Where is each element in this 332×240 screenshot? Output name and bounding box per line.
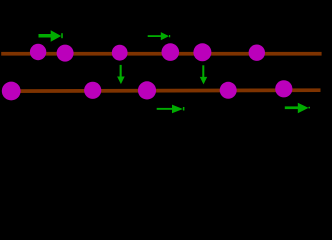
drift arrow A2 (top-middle, right-pointing) xyxy=(148,32,171,40)
charge carrier C3 xyxy=(112,45,128,61)
charge carrier C5 xyxy=(193,43,211,61)
charge carrier C9 (bottom wire) xyxy=(138,81,156,99)
drift arrow A3 (bottom-middle, right-pointing) xyxy=(157,105,185,114)
charge carrier C4 xyxy=(162,43,180,61)
charge carrier C11 (bottom wire) xyxy=(275,80,292,97)
charge carrier C2 xyxy=(57,45,74,62)
charge carrier C1 xyxy=(30,44,46,60)
top wire xyxy=(1,52,321,56)
charge carrier C7 (bottom wire) xyxy=(2,82,21,101)
transfer arrow D1 (down, below carrier C3) xyxy=(117,65,125,84)
drift arrow A1 (top-left, right-pointing) xyxy=(39,30,63,41)
charge carrier C8 (bottom wire) xyxy=(84,82,101,99)
charge carrier C10 (bottom wire) xyxy=(220,82,237,99)
transfer arrow D2 (down, below carrier C5) xyxy=(200,65,207,84)
bottom wire xyxy=(9,88,321,93)
drift arrow A4 (bottom-right, right-pointing) xyxy=(285,103,310,114)
charge carrier C6 xyxy=(249,45,265,61)
